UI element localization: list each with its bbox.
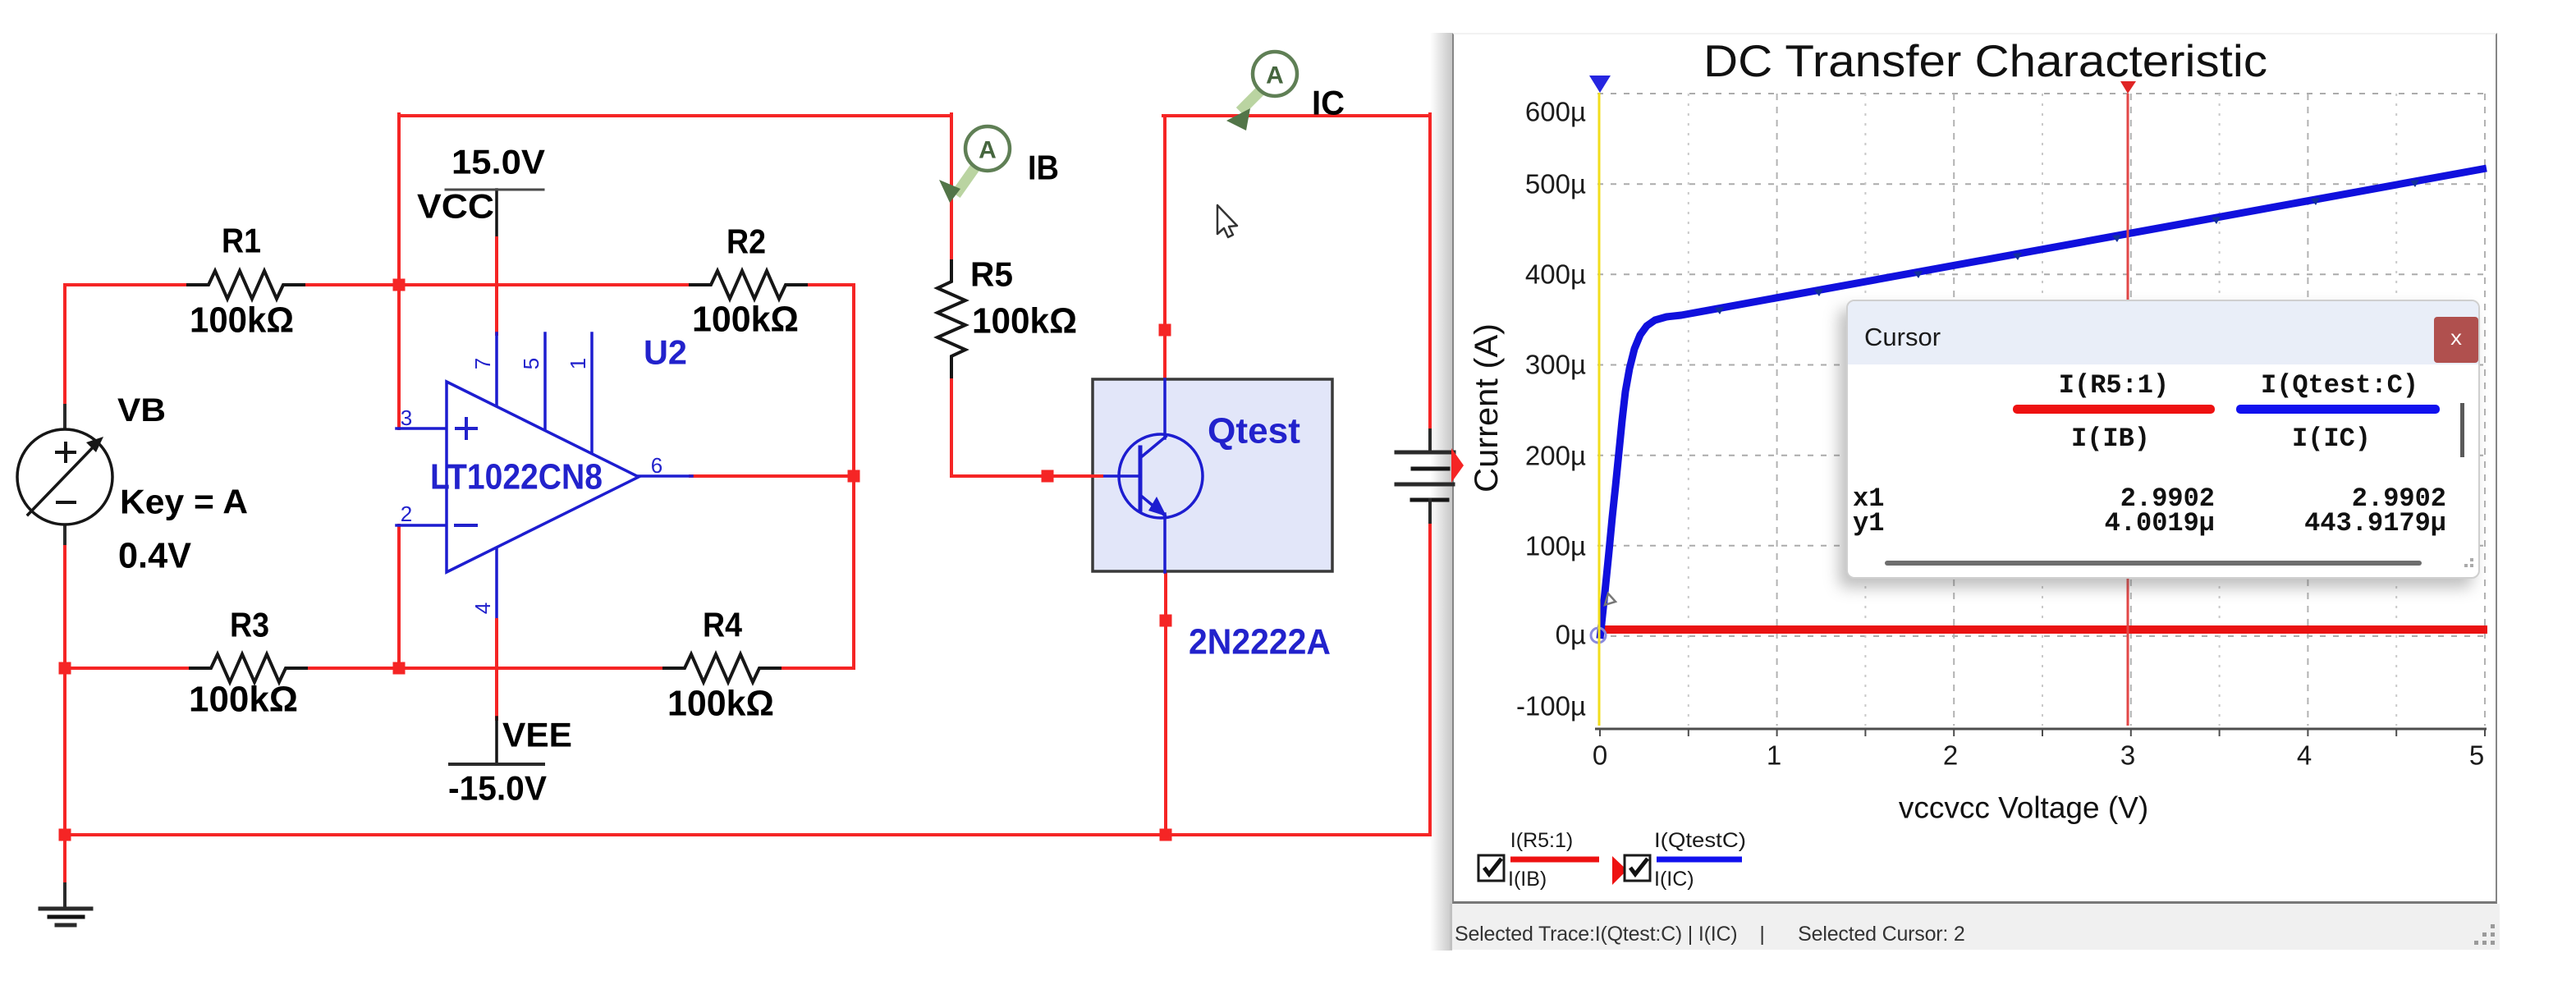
popup column header I(R5:1) <box>1950 370 2278 401</box>
gray marker on steep section <box>1605 593 1616 605</box>
wire pin2 stub <box>396 524 448 527</box>
battery output arrow <box>1451 448 1464 483</box>
wire battery top <box>1428 114 1432 432</box>
wire junction down to pin3 <box>397 285 401 428</box>
popup label I(IB) <box>1946 424 2275 454</box>
transistor emitter vertical <box>1163 514 1167 572</box>
wire top rail VCC net <box>399 114 951 117</box>
VCC power bar <box>446 189 543 191</box>
selected trace marker <box>1612 856 1627 885</box>
node emitter probe point <box>1160 615 1172 627</box>
popup resize grip <box>2459 552 2475 569</box>
wire R1 left segment <box>65 283 188 286</box>
op-amp pin4 blue <box>495 545 498 621</box>
node junction emitter/bottom rail <box>1160 829 1172 841</box>
node junction VB/R3 <box>59 662 71 675</box>
popup row y1 <box>1853 508 1884 538</box>
transistor collector diagonal <box>1141 437 1166 457</box>
current probe IB <box>959 168 974 190</box>
wire top rail down to R5 <box>950 114 953 261</box>
transistor base bar <box>1139 447 1143 510</box>
svg-text:IC: IC <box>1312 84 1345 122</box>
svg-text:3: 3 <box>401 405 412 430</box>
svg-text:7: 7 <box>470 358 495 369</box>
popup close button <box>2434 317 2478 363</box>
wire VEE black part <box>495 717 498 764</box>
resistor R2 <box>690 271 806 299</box>
svg-text:100kΩ: 100kΩ <box>692 300 799 340</box>
wire battery bottom <box>65 525 1430 835</box>
wire VB bottom red <box>63 547 66 668</box>
ground <box>40 907 91 911</box>
cursor 1 yellow line <box>1598 93 1601 726</box>
popup horizontal scrollbar <box>1885 561 2422 566</box>
wire output pin6 stub blue <box>639 474 692 478</box>
svg-text:VEE: VEE <box>502 716 572 754</box>
status bar grip <box>2491 941 2495 945</box>
svg-text:2N2222A: 2N2222A <box>1189 622 1331 662</box>
wire to ground <box>63 835 66 886</box>
x axis ticks <box>1599 729 1601 736</box>
plot grid horizontal lines <box>1597 635 2486 637</box>
svg-text:R5: R5 <box>970 255 1013 294</box>
wire VB top <box>63 285 66 407</box>
op-amp pin1 blue <box>590 333 594 456</box>
svg-text:4: 4 <box>470 602 495 614</box>
wire op-amp output <box>690 474 854 478</box>
resistor R1 <box>188 271 304 299</box>
popup row x1 <box>1853 483 1884 514</box>
wire VCC bar to pin7: black part <box>495 190 498 240</box>
battery plate 4 short <box>1412 498 1447 502</box>
wire R2 right to corner <box>807 283 854 286</box>
cursor 1 blue triangle <box>1589 76 1611 93</box>
resistor R4 <box>664 654 780 682</box>
transistor collector vertical <box>1163 379 1167 438</box>
node junction R3/R4/pin2 <box>393 662 406 675</box>
battery plate 2 short <box>1413 467 1448 471</box>
op-amp U2 triangle <box>447 382 639 572</box>
wire R3 left <box>65 667 190 670</box>
legend red line <box>1510 857 1599 863</box>
VEE power bar <box>450 763 543 766</box>
battery bottom black stub <box>1428 500 1432 527</box>
svg-text:A: A <box>1266 62 1284 89</box>
svg-text:2: 2 <box>401 502 412 526</box>
op-amp pin7 blue <box>495 333 498 406</box>
voltage source VB <box>17 429 112 525</box>
svg-text:U2: U2 <box>644 333 687 372</box>
x axis line <box>1595 728 2487 731</box>
wire VB top black stub <box>63 405 66 430</box>
cursor 2 red triangle <box>2120 81 2136 94</box>
current probe IC <box>1244 92 1259 108</box>
trace I(IB) red <box>1603 625 2487 634</box>
svg-text:VB: VB <box>117 392 166 428</box>
wire IC net top rail <box>1163 114 1430 117</box>
svg-text:15.0V: 15.0V <box>451 143 545 181</box>
svg-text:100kΩ: 100kΩ <box>190 300 294 341</box>
wire R1 right to junction and R2 <box>306 283 690 286</box>
plot grid vertical lines <box>1688 94 1689 726</box>
wire left rail down <box>63 668 66 835</box>
transistor symbol circle <box>1119 434 1203 518</box>
popup title bar <box>1848 301 2478 364</box>
svg-text:VCC: VCC <box>417 187 494 226</box>
svg-text:5: 5 <box>519 358 543 369</box>
wire VB bottom black stub <box>63 524 66 548</box>
grapher window chrome <box>1452 33 2497 904</box>
wire VCC vertical from rail <box>397 114 401 286</box>
popup vertical scrollbar <box>2460 403 2464 457</box>
svg-text:Qtest: Qtest <box>1208 411 1300 451</box>
wire R4 right corner up <box>782 285 854 668</box>
transistor base red stub inside box <box>1093 474 1102 478</box>
wire emitter down <box>1164 571 1167 835</box>
wire pin2 vertical <box>397 525 401 668</box>
wire R3 right to R4 <box>309 667 664 670</box>
trace point markers <box>1715 307 1724 314</box>
svg-text:100kΩ: 100kΩ <box>972 301 1077 341</box>
ground stub black <box>63 884 66 909</box>
svg-text:Key = A: Key = A <box>120 483 248 521</box>
wire pin3 stub <box>396 427 448 430</box>
popup blue trace line <box>2236 405 2440 414</box>
popup red trace line <box>2013 405 2215 414</box>
battery plate 3 long <box>1396 483 1453 487</box>
op-amp pin5 blue <box>543 333 547 433</box>
battery plate 1 long <box>1396 451 1454 455</box>
legend checkbox 2 <box>1625 855 1650 881</box>
popup column header I(Qtest:C) <box>2175 370 2504 401</box>
svg-text:100kΩ: 100kΩ <box>189 680 298 720</box>
trace I(IC) blue <box>1600 168 2487 639</box>
svg-text:R3: R3 <box>230 606 269 644</box>
wire R5 bottom corner to transistor base <box>951 373 1100 476</box>
svg-text:-15.0V: -15.0V <box>448 769 547 808</box>
origin circle marker <box>1591 628 1606 643</box>
legend blue line <box>1657 857 1742 863</box>
wire IC net collector vertical <box>1163 116 1167 381</box>
node junction base probe point <box>1042 470 1054 483</box>
resistor R3 <box>190 654 306 682</box>
transistor base lead <box>1098 474 1140 478</box>
svg-text:R2: R2 <box>727 222 766 261</box>
cursor popup window <box>1846 300 2480 579</box>
svg-text:R4: R4 <box>703 606 743 644</box>
op-amp plus <box>456 427 476 430</box>
op-amp minus <box>456 524 476 527</box>
svg-text:LT1022CN8: LT1022CN8 <box>430 457 603 497</box>
resistor R5 <box>937 261 965 377</box>
node junction output/R2R4 <box>848 470 860 483</box>
svg-text:A: A <box>979 137 997 164</box>
node junction bottom left <box>59 829 71 841</box>
mouse cursor <box>1217 205 1237 237</box>
wire pin4 to VEE red <box>495 620 498 719</box>
transistor Qtest box <box>1093 379 1332 571</box>
svg-text:1: 1 <box>566 358 590 369</box>
battery top black stub <box>1428 430 1432 452</box>
svg-text:6: 6 <box>651 453 662 478</box>
transistor emitter diagonal <box>1141 496 1165 515</box>
node junction R1/R2/pin3 <box>393 279 406 291</box>
node collector probe point <box>1159 324 1171 337</box>
legend checkbox 1 <box>1478 855 1504 881</box>
transistor emitter arrow <box>1148 497 1167 516</box>
svg-text:IB: IB <box>1028 149 1059 187</box>
wire VCC red part <box>495 238 498 334</box>
svg-text:0.4V: 0.4V <box>118 536 192 576</box>
status bar <box>1450 904 2500 950</box>
svg-text:R1: R1 <box>222 222 261 260</box>
popup label I(IC) <box>2167 424 2496 454</box>
cursor 2 red line <box>2127 94 2129 726</box>
svg-text:100kΩ: 100kΩ <box>667 684 774 724</box>
window drop shadow strip <box>1430 33 1452 951</box>
